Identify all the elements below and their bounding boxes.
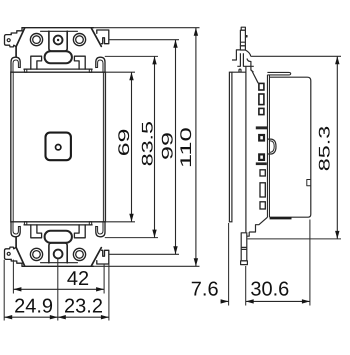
nub on plate cap [239,69,241,72]
svg-text:69: 69 [116,129,133,157]
right diagonal [91,28,101,46]
left ear [5,35,17,47]
dimension 7.6 [221,299,229,303]
bottom extension lines (side view) [229,220,310,306]
svg-text:110: 110 [178,127,195,168]
mounting bracket (bottom) [5,222,109,266]
mounting bracket (top), mirrored for bottom [5,28,109,72]
svg-text:30.6: 30.6 [250,279,289,301]
right hook [96,57,105,72]
side view front plate (flange) [229,72,232,222]
dimension 42 [13,287,104,291]
right screw hole [73,34,85,46]
left ear hole [7,39,10,42]
front view center button [46,133,71,161]
dimension 85.3 [335,56,339,239]
face double line [267,75,269,217]
svg-text:23.2: 23.2 [64,295,103,317]
top edge [22,27,94,29]
dimension 99 [173,40,177,255]
dimension 110 [194,28,198,267]
left diagonal [16,28,25,57]
svg-text:42: 42 [67,268,89,290]
dimension 83.5 [152,56,156,237]
claw steps [31,56,42,69]
svg-text:85.3: 85.3 [317,126,334,171]
side view body [268,75,311,218]
svg-text:99: 99 [160,132,177,160]
dimension 30.6 [246,299,310,303]
right ear [97,30,109,44]
left screw hole [30,34,42,46]
svg-text:83.5: 83.5 [140,121,157,166]
center circle [54,36,63,45]
latch bump [268,139,277,154]
center pin dot (top bracket only) [57,39,59,41]
85.3 extension lines [248,56,342,239]
step from tab to plate [232,50,246,72]
svg-text:24.9: 24.9 [14,295,53,317]
dimension 24.9 / 23.2 [4,315,109,319]
side view strap column [245,66,247,232]
svg-text:7.6: 7.6 [191,279,219,301]
terminal window slots [259,83,265,209]
center housing [49,31,67,51]
side view top flange bar [267,72,290,75]
bottom extension lines (front view) [4,259,109,321]
side view bottom step and tab [241,217,268,264]
thick bottom segment [270,217,292,219]
front view plate [11,72,106,222]
shoulder S-step to face [243,50,251,66]
dimension extension lines (left view, vertical dims) [94,28,200,267]
left hook [11,57,20,72]
side view top mounting tab [232,27,258,83]
oval slot [45,51,72,63]
left corner steps [11,28,22,35]
parting notch on right edge [307,180,311,186]
dimension 69 [129,72,133,222]
strip divider bars [256,126,267,129]
seam line between screws [41,30,78,32]
